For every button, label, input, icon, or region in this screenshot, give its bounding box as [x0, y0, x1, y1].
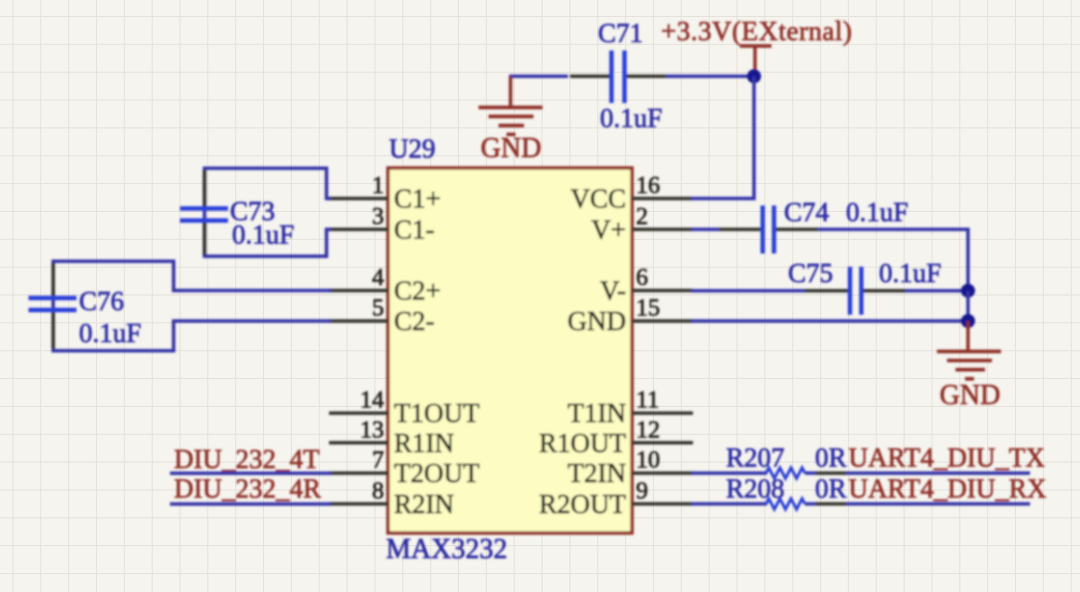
svg-text:C75: C75 [788, 258, 833, 288]
svg-text:R1IN: R1IN [394, 428, 454, 458]
pin 7 T2OUT [329, 448, 480, 489]
svg-text:0.1uF: 0.1uF [232, 220, 294, 250]
power port +3.3V(EXternal) [661, 16, 852, 76]
wire V- pin 6 to C75 [691, 289, 805, 293]
pin 3 C1- [329, 204, 435, 245]
svg-text:GND: GND [940, 380, 1001, 411]
svg-text:11: 11 [636, 388, 659, 414]
svg-text:12: 12 [636, 417, 660, 443]
pin 6 V- [600, 265, 693, 306]
svg-text:6: 6 [636, 265, 648, 291]
svg-text:3: 3 [372, 204, 384, 230]
svg-text:T2IN: T2IN [568, 458, 626, 488]
wire junction to VCC pin 16 [691, 76, 754, 198]
svg-text:C74: C74 [784, 197, 830, 227]
svg-text:GND: GND [568, 306, 627, 336]
wire C76 loop [53, 261, 331, 351]
capacitor C71 [570, 18, 666, 133]
svg-text:C76: C76 [79, 286, 124, 316]
pin 5 C2- [329, 296, 435, 337]
wire GND to C71 [509, 75, 568, 79]
wire C75 to junction [905, 289, 968, 293]
svg-text:13: 13 [360, 417, 384, 443]
pin 11 T1IN [568, 388, 693, 429]
svg-text:U29: U29 [389, 134, 436, 164]
wire DIU_232_4R [170, 502, 331, 506]
svg-text:R1OUT: R1OUT [539, 428, 627, 458]
IC U29 body [388, 168, 632, 533]
pin 10 T2IN [568, 448, 693, 489]
svg-text:5: 5 [372, 296, 384, 322]
pin 13 R1IN [329, 417, 454, 458]
svg-text:MAX3232: MAX3232 [386, 534, 507, 565]
resistor R208 [726, 474, 847, 510]
svg-text:8: 8 [372, 478, 384, 504]
svg-text:7: 7 [372, 448, 384, 474]
svg-text:0.1uF: 0.1uF [600, 103, 662, 133]
wire T2IN pin 10 to R207 [691, 471, 767, 475]
svg-text:R208: R208 [726, 474, 785, 504]
svg-text:0R: 0R [815, 443, 847, 473]
capacitor C75 [788, 258, 941, 315]
svg-text:C2+: C2+ [394, 276, 441, 306]
pin 8 R2IN [329, 478, 454, 519]
svg-text:10: 10 [636, 448, 660, 474]
svg-text:+3.3V(EXternal): +3.3V(EXternal) [661, 16, 852, 46]
pin 9 R2OUT [539, 478, 693, 519]
wire DIU_232_4T [170, 472, 331, 476]
pin 16 VCC [570, 173, 693, 214]
svg-text:V-: V- [600, 276, 626, 306]
svg-text:T1IN: T1IN [568, 398, 626, 428]
wire right rail [966, 291, 970, 321]
junction [961, 284, 975, 298]
svg-text:15: 15 [636, 296, 660, 322]
svg-text:14: 14 [360, 388, 384, 414]
svg-text:UART4_DIU_TX: UART4_DIU_TX [849, 443, 1046, 473]
svg-text:T1OUT: T1OUT [394, 398, 480, 428]
resistor R207 [726, 443, 847, 479]
svg-text:2: 2 [636, 204, 648, 230]
svg-text:UART4_DIU_RX: UART4_DIU_RX [849, 474, 1047, 504]
pin 1 C1+ [329, 173, 441, 214]
ground GND (top) [479, 76, 543, 164]
capacitor C74 [719, 197, 908, 254]
svg-text:R207: R207 [726, 443, 785, 473]
svg-text:C71: C71 [598, 18, 643, 48]
svg-text:T2OUT: T2OUT [394, 458, 480, 488]
svg-text:GND: GND [481, 133, 542, 164]
svg-text:C1-: C1- [394, 214, 435, 244]
svg-text:VCC: VCC [570, 184, 626, 214]
svg-text:R2OUT: R2OUT [539, 489, 627, 519]
svg-text:0R: 0R [815, 474, 847, 504]
pin 14 T1OUT [329, 388, 480, 429]
wire C71 to junction [666, 75, 755, 79]
pin 2 V+ [591, 204, 693, 245]
wire V+ pin 2 to C74 [691, 228, 719, 232]
svg-text:DIU_232_4R: DIU_232_4R [174, 474, 321, 504]
wire R2OUT pin 9 to R208 [691, 502, 767, 506]
pin 15 GND [568, 296, 694, 337]
svg-text:C1+: C1+ [394, 184, 441, 214]
svg-text:C2-: C2- [394, 306, 435, 336]
junction [747, 69, 761, 83]
svg-text:0.1uF: 0.1uF [879, 258, 941, 288]
svg-text:1: 1 [372, 173, 384, 199]
wire R208 to net end [846, 502, 1030, 506]
svg-text:V+: V+ [591, 214, 626, 244]
wire GND pin 15 to junction [691, 319, 968, 323]
pin 12 R1OUT [539, 417, 693, 458]
wire R207 to net end [846, 471, 1030, 475]
wire C74 to right rail [818, 229, 968, 290]
ground GND (bottom right) [937, 321, 1001, 411]
svg-text:R2IN: R2IN [394, 489, 454, 519]
svg-text:DIU_232_4T: DIU_232_4T [174, 444, 320, 474]
svg-text:4: 4 [372, 265, 384, 291]
svg-text:16: 16 [636, 173, 660, 199]
capacitor C73 [180, 170, 294, 255]
wire C73 loop [205, 168, 332, 256]
svg-text:0.1uF: 0.1uF [846, 197, 908, 227]
capacitor C76 [29, 263, 142, 349]
svg-text:9: 9 [636, 478, 648, 504]
svg-text:0.1uF: 0.1uF [79, 318, 141, 348]
junction [961, 314, 975, 328]
pin 4 C2+ [329, 265, 441, 306]
